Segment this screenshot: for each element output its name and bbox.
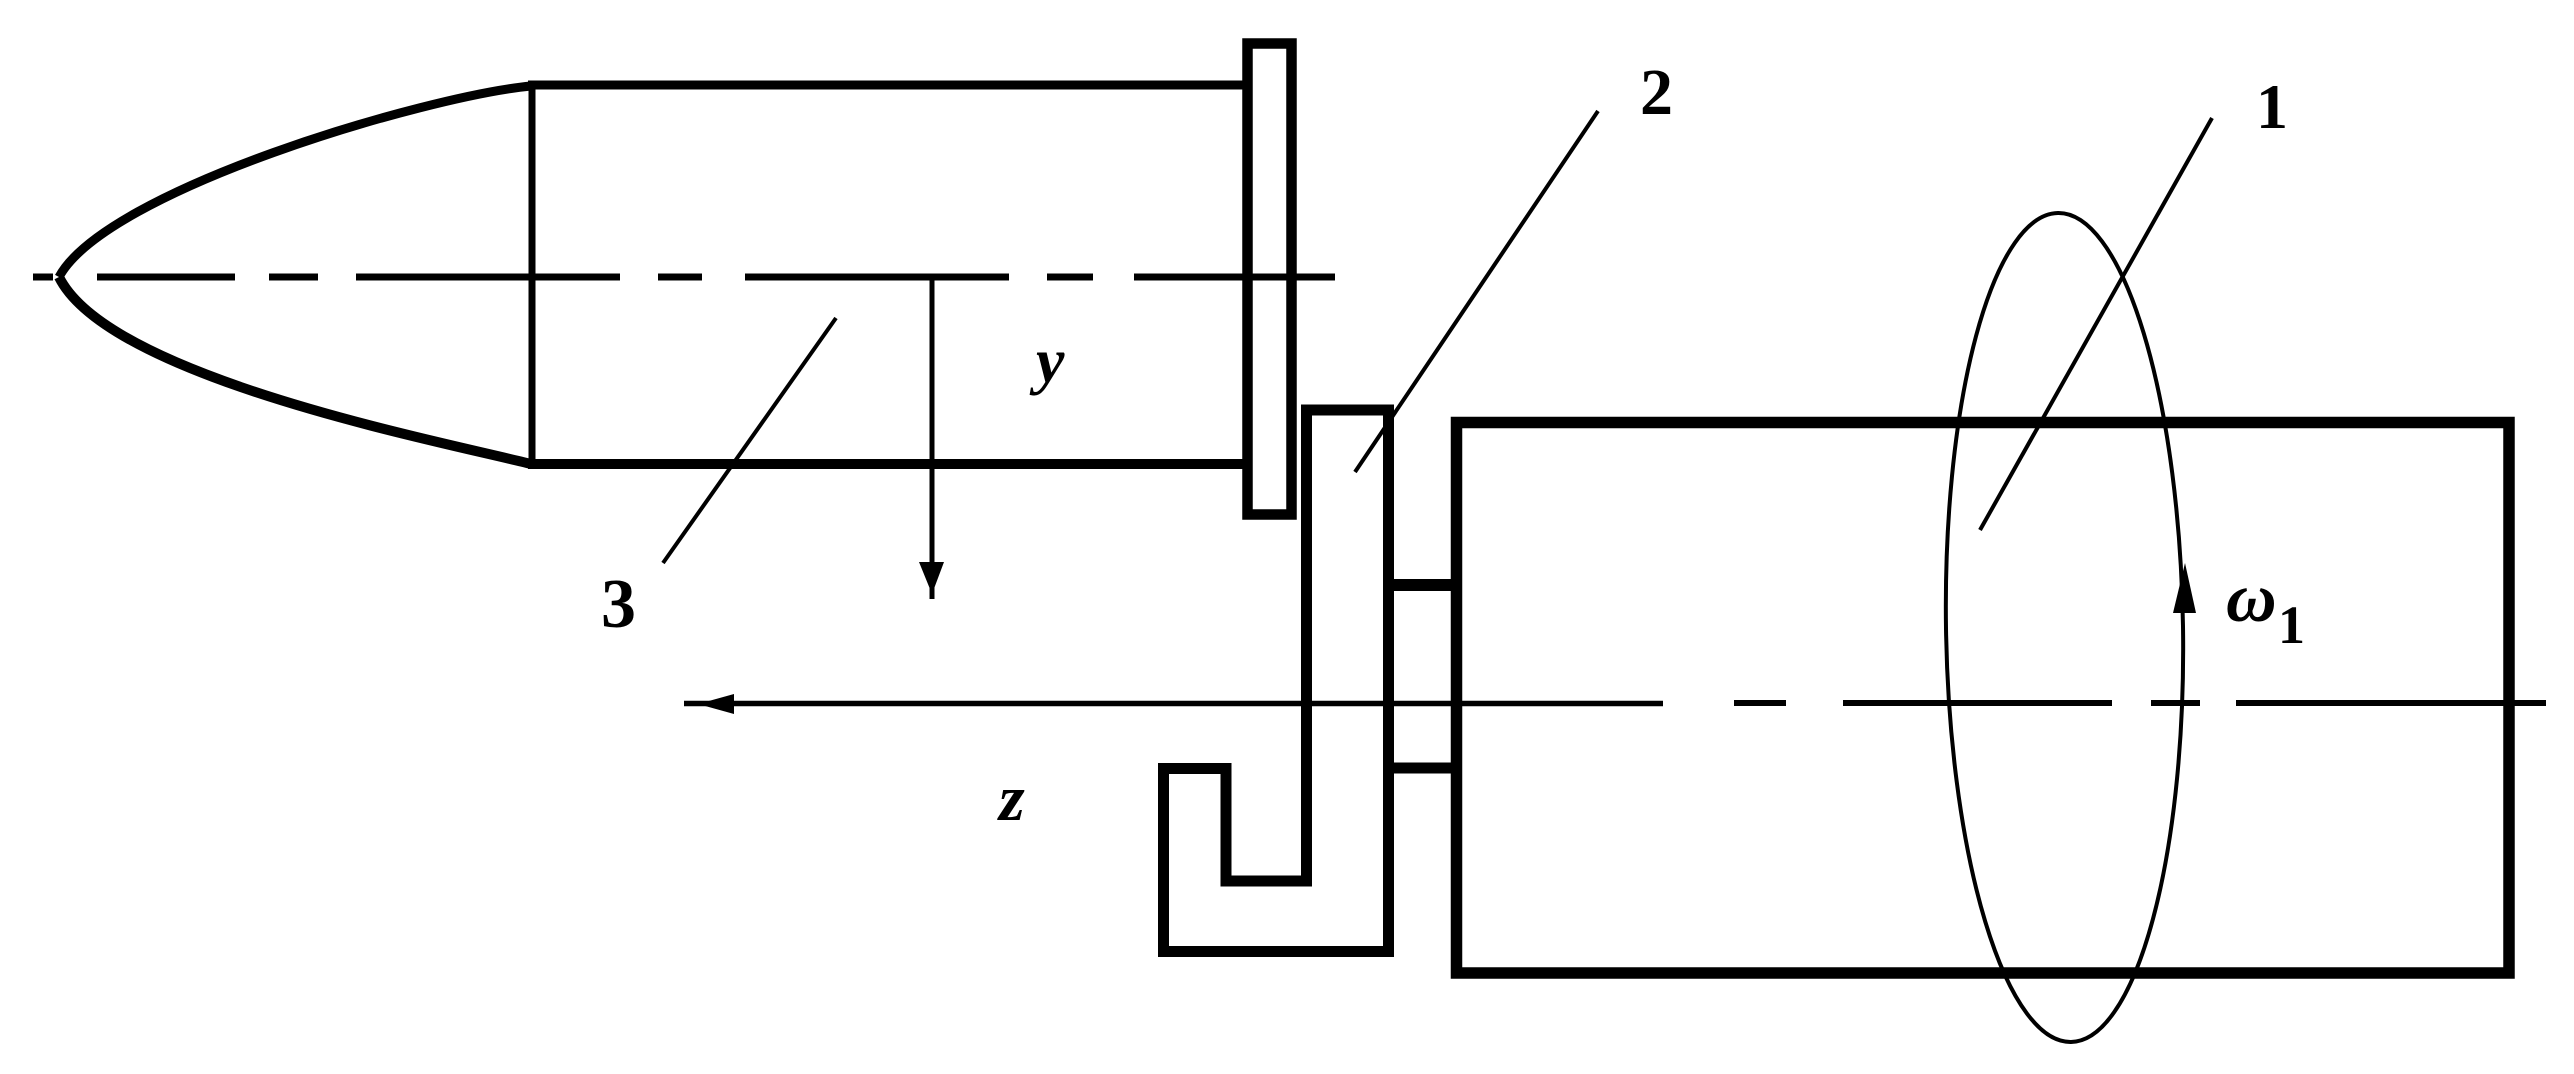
svg-text:1: 1 [2256,71,2288,142]
y axis line with down arrow [930,277,935,599]
rotation ellipse on cylinder 1 [1940,211,2190,1044]
projectile body 3: top edge [528,81,1247,90]
cylinder 1 body [1457,423,2510,974]
leader line for label 1 [1980,118,2212,530]
projectile body 3: upper ogive arc [59,86,531,277]
rotation arrowhead (omega direction) [2173,563,2196,613]
svg-text:1: 1 [2278,595,2305,655]
projectile body 3: bottom edge [528,459,1247,469]
cylinder axis centerline (dash-dot) [1734,700,2546,706]
projectile body 3: base vertical line [529,84,536,465]
leader line for label 2 [1355,111,1598,472]
lower connector pin [1385,763,1458,774]
svg-text:3: 3 [601,566,636,643]
bracket 2 (hook shaped) [1164,410,1389,952]
projectile body 3: lower ogive arc [59,277,531,464]
z axis line with left arrow [684,701,1663,707]
svg-text:ω: ω [2226,560,2277,637]
svg-text:z: z [997,762,1025,835]
projectile centerline (dash-dot) [33,274,1335,281]
svg-text:2: 2 [1640,56,1673,129]
leader line for label 3 [663,318,836,563]
flange on projectile base [1248,44,1292,515]
upper connector pin [1385,579,1458,591]
